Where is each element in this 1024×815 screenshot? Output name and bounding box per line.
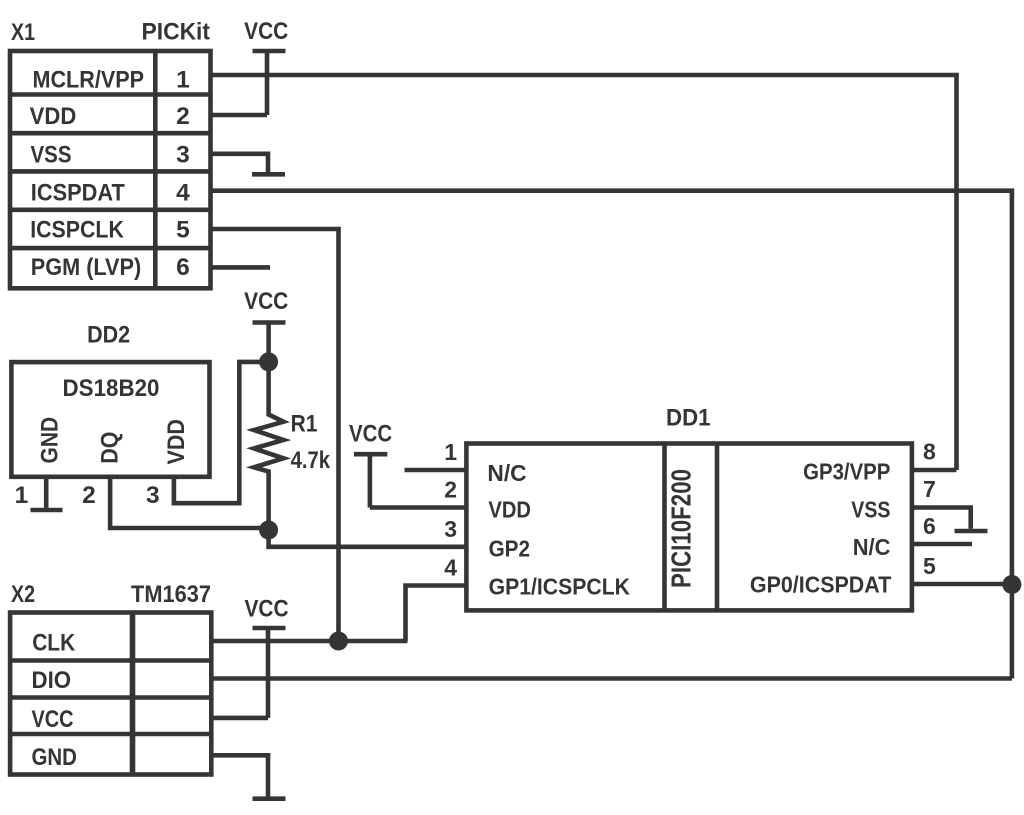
svg-text:VCC: VCC: [245, 596, 289, 623]
svg-text:VCC: VCC: [349, 421, 392, 448]
ground (DD2 pin 1): [31, 508, 63, 513]
connector X1 row separators: [10, 95, 211, 249]
wire DD2 pin1 to ground: [44, 477, 49, 508]
svg-text:4: 4: [176, 180, 190, 207]
wire DD1 pin7 VSS to ground: [912, 508, 971, 529]
svg-text:GND: GND: [32, 744, 77, 771]
svg-text:1: 1: [176, 67, 190, 94]
svg-text:MCLR/VPP: MCLR/VPP: [33, 67, 145, 94]
svg-text:GP2: GP2: [489, 535, 530, 561]
power symbol VCC (X2): [245, 596, 289, 718]
svg-text:PICI10F200: PICI10F200: [666, 469, 697, 588]
svg-text:CLK: CLK: [32, 629, 75, 656]
IC DD1 outline: [466, 444, 912, 611]
wire X1 pin4 ICSPDAT to right bus: [211, 191, 1012, 679]
svg-text:DD2: DD2: [87, 322, 130, 349]
wire X2 CLK to DD1 GP1: [211, 639, 407, 644]
ground (X2 GND): [253, 796, 286, 801]
svg-text:DS18B20: DS18B20: [63, 375, 160, 402]
svg-text:VSS: VSS: [851, 497, 890, 523]
svg-text:3: 3: [444, 516, 457, 542]
wire VCC to DD1 pin2 VDD: [370, 505, 467, 510]
svg-text:VCC: VCC: [244, 288, 288, 315]
svg-text:VCC: VCC: [244, 18, 288, 45]
svg-text:1: 1: [15, 482, 29, 509]
wire DD1 pin8 stub: [912, 468, 957, 473]
wire DD1 pin5 GP0/ICSPDAT to right bus: [912, 582, 1012, 587]
svg-text:2: 2: [444, 477, 457, 503]
ground (X1 pin 3): [252, 172, 285, 177]
wire X1 pin1 MCLR/VPP to DD1 pin8: [211, 75, 957, 470]
power symbol VCC (DD1 VDD): [349, 421, 392, 508]
svg-text:7: 7: [923, 476, 936, 502]
node junction at R1 top: [259, 352, 278, 371]
svg-text:3: 3: [146, 482, 160, 509]
svg-text:N/C: N/C: [487, 460, 526, 486]
wire X1 pin2 VDD to VCC: [211, 113, 268, 118]
ground (DD1 pin 7): [955, 529, 988, 534]
svg-text:3: 3: [176, 142, 190, 169]
power symbol VCC (top, X1 pin 2): [244, 18, 288, 115]
svg-text:VDD: VDD: [30, 103, 77, 130]
wire DD2 pin2 DQ to R1 bottom node: [110, 477, 269, 528]
svg-text:6: 6: [923, 513, 936, 539]
DD1 inner divider right: [715, 444, 720, 611]
svg-text:N/C: N/C: [853, 534, 891, 560]
svg-text:ICSPCLK: ICSPCLK: [30, 217, 124, 244]
connector X2 outline: [10, 613, 211, 775]
node junction CLK / ICSPCLK: [329, 632, 348, 651]
svg-text:VDD: VDD: [488, 497, 531, 523]
svg-text:4.7k: 4.7k: [291, 447, 331, 474]
wire R1 bottom to DD1 GP2: [269, 530, 467, 547]
connector X1 column divider: [153, 51, 158, 288]
node junction at R1 bottom: [259, 521, 278, 540]
svg-text:TM1637: TM1637: [131, 581, 211, 608]
svg-text:PICKit: PICKit: [142, 19, 211, 46]
wire X1 pin5 ICSPCLK down to CLK node: [211, 229, 339, 641]
wire DD1 pin6 N/C stub: [912, 542, 972, 547]
wire X2 DIO to right bus: [211, 676, 1012, 681]
svg-text:GND: GND: [37, 417, 64, 464]
power symbol VCC (above R1): [244, 288, 288, 362]
svg-text:5: 5: [923, 553, 936, 579]
wire X2 VCC row to VCC symbol: [211, 716, 268, 721]
svg-text:DIO: DIO: [32, 667, 72, 694]
connector X1 outline: [10, 51, 211, 288]
svg-text:PGM (LVP): PGM (LVP): [31, 254, 141, 281]
node junction DD1 pin5 / DIO bus: [1002, 575, 1021, 594]
resistor R1: [254, 362, 284, 530]
svg-text:VDD: VDD: [163, 419, 190, 464]
svg-text:6: 6: [176, 254, 190, 281]
svg-text:5: 5: [176, 217, 190, 244]
svg-text:DD1: DD1: [666, 405, 711, 432]
wire DD1 pin1 N/C stub: [405, 468, 467, 473]
svg-text:2: 2: [176, 103, 190, 130]
svg-text:8: 8: [923, 439, 936, 465]
svg-text:GP0/ICSPDAT: GP0/ICSPDAT: [750, 571, 891, 597]
svg-text:X1: X1: [11, 19, 35, 46]
svg-text:VCC: VCC: [32, 706, 74, 733]
svg-text:1: 1: [444, 439, 457, 465]
svg-text:DQ: DQ: [97, 432, 124, 464]
wire X1 pin3 VSS to ground: [211, 154, 269, 172]
wire X1 pin6 PGM stub: [211, 265, 271, 270]
DD1 inner divider left: [662, 444, 667, 611]
svg-text:2: 2: [82, 482, 96, 509]
svg-text:4: 4: [444, 555, 457, 581]
wire DD2 pin3 VDD up to R1 top node: [174, 362, 269, 503]
svg-text:GP1/ICSPCLK: GP1/ICSPCLK: [489, 574, 631, 600]
wire DD1 pin4 GP1/ICSPCLK down to CLK wire: [406, 586, 467, 642]
IC DD2 DS18B20 outline: [11, 362, 209, 477]
svg-text:X2: X2: [11, 581, 35, 608]
connector X2 row separators: [10, 661, 211, 735]
svg-text:ICSPDAT: ICSPDAT: [31, 180, 125, 207]
svg-text:R1: R1: [291, 411, 318, 438]
connector X2 column divider: [130, 613, 136, 775]
svg-text:VSS: VSS: [31, 142, 72, 169]
wire X2 GND row to ground: [211, 755, 268, 796]
svg-text:GP3/VPP: GP3/VPP: [803, 458, 890, 484]
